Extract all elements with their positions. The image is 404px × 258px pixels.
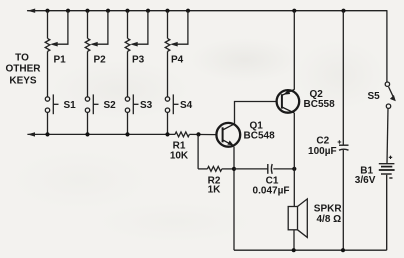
switch S3 [125, 94, 138, 134]
transistor Q2 [277, 89, 300, 113]
wire top rail arrowhead [28, 9, 36, 13]
resistor R2 [198, 167, 234, 172]
potentiometer P2 [85, 11, 108, 97]
svg-text:P2: P2 [94, 55, 107, 66]
node C1 collector junction [292, 167, 296, 171]
svg-text:S4: S4 [180, 100, 193, 111]
svg-text:C2: C2 [316, 136, 329, 147]
svg-text:1K: 1K [208, 184, 222, 195]
wire Q1 emitter down to bottom rail [233, 147, 235, 251]
wire Q2 emitter to top rail [293, 11, 295, 90]
wire Q1 collector to Q2 base [235, 102, 277, 124]
potentiometer P4 [165, 11, 188, 97]
svg-text:4/8 Ω: 4/8 Ω [317, 214, 342, 225]
svg-text:OTHER: OTHER [6, 64, 42, 75]
svg-text:KEYS: KEYS [9, 76, 37, 87]
svg-text:BC548: BC548 [244, 131, 276, 142]
svg-text:0.047µF: 0.047µF [253, 185, 290, 196]
svg-text:TO: TO [15, 53, 29, 64]
svg-text:10K: 10K [170, 151, 189, 162]
switch S5 [385, 11, 396, 164]
svg-text:P4: P4 [171, 55, 184, 66]
node top rail junctions [45, 9, 345, 13]
switch S1 [45, 94, 58, 134]
node second rail junctions [45, 132, 169, 136]
svg-text:BC558: BC558 [304, 99, 336, 110]
wire R2 branch vertical [197, 134, 199, 169]
capacitor C2 [338, 11, 349, 251]
svg-text:100µF: 100µF [308, 146, 337, 157]
svg-text:P3: P3 [132, 55, 145, 66]
node emitter R2 C1 junction [232, 167, 236, 171]
transistor Q1 [216, 123, 240, 147]
svg-text:P1: P1 [54, 55, 67, 66]
node bottom rail junctions [292, 248, 346, 252]
node base R2 junction [196, 132, 200, 136]
potentiometer P1 [45, 11, 68, 97]
svg-text:3/6V: 3/6V [355, 175, 376, 186]
svg-text:S1: S1 [64, 100, 77, 111]
capacitor C1 [234, 164, 294, 174]
wire bottom rail [234, 249, 387, 251]
svg-text:S3: S3 [140, 100, 153, 111]
wire Q2 collector down to speaker [293, 113, 295, 207]
battery B1 [379, 156, 395, 251]
switch S4 [165, 94, 178, 134]
speaker SPKR [288, 199, 307, 250]
switch S2 [85, 94, 98, 134]
potentiometer P3 [125, 11, 148, 97]
wire second rail [27, 132, 175, 136]
wire top rail [28, 10, 387, 12]
svg-text:S2: S2 [104, 100, 117, 111]
svg-text:S5: S5 [368, 91, 381, 102]
resistor R1 [175, 132, 216, 137]
